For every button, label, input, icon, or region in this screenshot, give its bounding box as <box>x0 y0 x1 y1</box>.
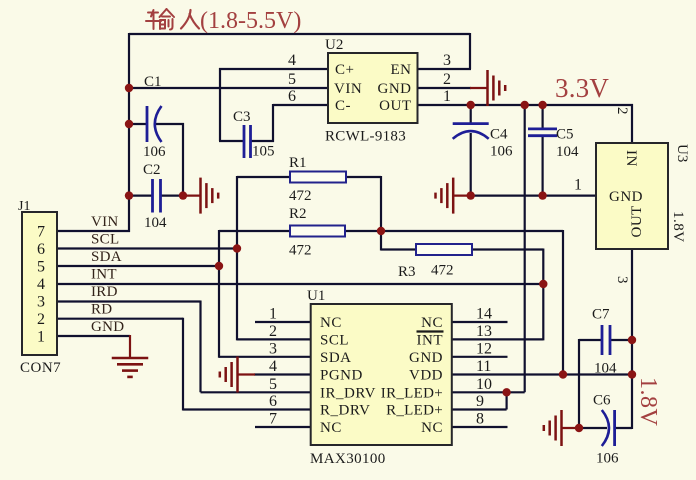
svg-text:105: 105 <box>252 144 275 160</box>
svg-text:2: 2 <box>614 107 630 115</box>
svg-text:SCL: SCL <box>320 332 349 348</box>
svg-text:VIN: VIN <box>334 81 362 97</box>
wire U3 pin 3 vertical (1.8V) <box>631 249 633 429</box>
op-amp U3 body (1.8V LDO) <box>596 143 668 249</box>
svg-text:GND: GND <box>91 319 124 335</box>
capacitor C2 <box>153 179 161 213</box>
svg-text:1.8V: 1.8V <box>670 211 686 243</box>
svg-text:11: 11 <box>476 358 491 375</box>
svg-text:3: 3 <box>37 294 45 311</box>
resistor R1 <box>290 172 346 183</box>
wire C6 right lead <box>615 427 632 429</box>
svg-text:12: 12 <box>476 340 492 357</box>
svg-text:NC: NC <box>320 315 342 331</box>
svg-text:106: 106 <box>490 144 513 160</box>
connector J1 body <box>22 212 57 355</box>
svg-text:C2: C2 <box>143 162 161 178</box>
svg-text:SDA: SDA <box>320 350 352 366</box>
svg-text:R_DRV: R_DRV <box>320 403 370 419</box>
resistor R3 <box>416 244 472 255</box>
junction C1 left <box>125 120 133 128</box>
junction INT <box>539 280 547 288</box>
wire C1 right lead <box>156 123 184 125</box>
wire C2 left lead <box>129 195 153 197</box>
wire EN drop from top rail <box>469 33 471 69</box>
wire pin9-pin10 riser <box>506 391 508 409</box>
wire C4 bottom lead <box>470 133 472 196</box>
wire GND row from J1 pin 1 <box>56 335 130 337</box>
svg-text:GND: GND <box>409 350 443 366</box>
ground U2 GND pin 2 <box>470 70 505 106</box>
svg-text:5: 5 <box>269 376 277 393</box>
wire U2 pin 2 stub <box>418 87 472 89</box>
svg-text:4: 4 <box>269 358 277 375</box>
junction SDA <box>215 262 223 270</box>
wire C7 left vertical <box>578 339 580 429</box>
wire IRD row from J1 pin 3 <box>56 300 201 302</box>
junction C7 right <box>628 336 636 344</box>
resistor R2 <box>290 226 345 237</box>
svg-text:13: 13 <box>476 323 492 340</box>
svg-text:4: 4 <box>288 52 296 69</box>
svg-text:R1: R1 <box>289 155 307 171</box>
svg-text:1: 1 <box>37 329 45 346</box>
junction gnd row C4 <box>467 191 475 199</box>
ground C1/C2 <box>183 178 218 214</box>
op-amp U1 body (MAX30100) <box>311 304 452 445</box>
wire J1 ground stem <box>129 335 131 358</box>
wire U3 pin 2 drop <box>631 104 633 143</box>
svg-text:J1: J1 <box>18 199 30 214</box>
wire input supply vertical <box>128 33 130 232</box>
junction gnd row C5 <box>538 191 546 199</box>
junction C2 left <box>125 191 133 199</box>
wire RD row from J1 pin 2 <box>56 318 183 320</box>
capacitor C1 <box>147 106 162 142</box>
wire U2 pin 4 row <box>219 68 328 70</box>
net name title chinese character 输 <box>146 9 174 30</box>
wire U1 pin 13 row <box>452 338 543 340</box>
svg-text:7: 7 <box>37 224 45 241</box>
wire ground row to U3 pin 1 <box>471 195 596 197</box>
svg-text:VDD: VDD <box>409 368 443 384</box>
svg-text:472: 472 <box>289 188 312 204</box>
wire C- vertical <box>272 104 274 142</box>
svg-text:3: 3 <box>269 340 277 357</box>
svg-text:IN: IN <box>623 150 639 167</box>
wire RD vertical <box>182 318 184 411</box>
ground C6 <box>544 410 579 446</box>
svg-text:OUT: OUT <box>629 205 645 237</box>
wire R3 left lead <box>381 248 416 250</box>
wire U1 pin 10 row <box>452 391 525 393</box>
svg-text:R_LED+: R_LED+ <box>386 403 443 419</box>
net name title chinese character 入 <box>181 10 199 29</box>
wire INT row from J1 pin 4 <box>56 283 543 285</box>
svg-text:(1.8-5.5V): (1.8-5.5V) <box>200 8 301 34</box>
wire IRD vertical <box>199 301 201 393</box>
svg-text:472: 472 <box>289 243 312 259</box>
wire C5 bottom lead <box>541 136 543 196</box>
junction C6 left / ground <box>575 424 583 432</box>
ground U1 PGND <box>220 357 255 393</box>
svg-text:U2: U2 <box>325 37 343 53</box>
junction 1.8V rail / U3 out <box>628 370 636 378</box>
svg-text:4: 4 <box>37 276 45 293</box>
wire SDA vertical <box>218 230 220 358</box>
svg-text:RD: RD <box>91 302 112 318</box>
svg-text:1: 1 <box>269 306 277 323</box>
ground C4/C5 rail <box>436 178 471 214</box>
wire U1 pin 2 row <box>237 338 311 340</box>
svg-text:3: 3 <box>443 52 451 69</box>
capacitor C5 <box>528 129 557 136</box>
wire 3.3V rail (U2 OUT) <box>418 104 634 106</box>
wire U1 pin 3 row <box>219 356 311 358</box>
wire C+ vertical to C3 <box>219 68 221 141</box>
wire U1 pin 5 row <box>201 391 311 393</box>
wire C3 right lead <box>251 140 275 142</box>
wire C6 left lead <box>579 427 607 429</box>
svg-text:CON7: CON7 <box>20 360 61 376</box>
wire C4 top lead <box>470 105 472 124</box>
wire R2 left lead <box>219 230 290 232</box>
svg-text:C5: C5 <box>556 127 574 143</box>
svg-text:104: 104 <box>556 144 579 160</box>
wire U1 pin 4 stub <box>254 373 311 375</box>
svg-text:OUT: OUT <box>379 98 411 114</box>
capacitor C6 <box>602 410 615 446</box>
svg-text:PGND: PGND <box>320 368 363 384</box>
junction C2 right / ground <box>179 191 187 199</box>
junction SCL <box>233 244 241 252</box>
wire VIN row from J1 pin 7 <box>56 230 130 232</box>
wire C1-C2 right vertical <box>182 123 184 197</box>
wire R3 right lead <box>472 248 543 250</box>
svg-text:RCWL-9183: RCWL-9183 <box>325 129 406 145</box>
svg-text:106: 106 <box>596 451 619 467</box>
svg-text:MAX30100: MAX30100 <box>310 451 386 467</box>
svg-text:GND: GND <box>609 189 643 205</box>
junction pullup to 1.8V rail <box>559 370 567 378</box>
svg-text:U1: U1 <box>307 288 325 304</box>
wire U1 pin 7 stub <box>255 426 311 428</box>
svg-text:IR_DRV: IR_DRV <box>320 385 376 401</box>
svg-text:6: 6 <box>37 241 45 258</box>
svg-text:3: 3 <box>614 276 630 284</box>
svg-text:5: 5 <box>37 259 45 276</box>
svg-text:1: 1 <box>443 88 451 105</box>
svg-text:NC: NC <box>421 420 443 436</box>
capacitor C7 <box>602 325 610 355</box>
wire U1 pin 6 row <box>183 408 311 410</box>
svg-text:6: 6 <box>269 393 277 410</box>
svg-text:R3: R3 <box>398 264 416 280</box>
svg-text:7: 7 <box>269 411 277 428</box>
wire VIN to U2 pin 5 <box>129 87 328 89</box>
junction 3.3V C5 <box>538 101 546 109</box>
wire U1 pin 12 stub <box>452 356 508 358</box>
svg-text:C4: C4 <box>490 127 508 143</box>
svg-text:C3: C3 <box>233 109 251 125</box>
wire C3 left lead <box>219 140 244 142</box>
svg-text:VIN: VIN <box>91 214 119 230</box>
svg-text:104: 104 <box>144 215 167 231</box>
wire U1 pin 9 stub <box>452 408 507 410</box>
svg-text:6: 6 <box>288 88 296 105</box>
capacitor C3 <box>244 125 251 158</box>
wire U1 pin 8 stub <box>452 426 508 428</box>
svg-text:C+: C+ <box>335 62 354 78</box>
wire U2 pin 3 stub <box>418 68 472 70</box>
wire U1 pin 14 stub <box>452 321 508 323</box>
wire U1 pin 1 stub <box>255 321 311 323</box>
svg-text:EN: EN <box>391 62 412 78</box>
svg-text:SCL: SCL <box>91 232 119 248</box>
svg-text:10: 10 <box>476 376 492 393</box>
wire pullup node vertical <box>562 230 564 375</box>
svg-text:U3: U3 <box>674 144 690 162</box>
wire C2 right lead <box>161 195 184 197</box>
junction 3.3V branch <box>521 101 529 109</box>
junction R2 right <box>377 227 385 235</box>
svg-text:472: 472 <box>431 263 454 279</box>
wire SCL row from J1 pin 6 <box>56 247 237 249</box>
svg-text:1: 1 <box>574 177 582 194</box>
wire INT vertical <box>542 249 544 341</box>
svg-text:IRD: IRD <box>91 284 118 300</box>
svg-text:NC: NC <box>320 420 342 436</box>
svg-text:14: 14 <box>476 306 492 323</box>
wire input top rail <box>129 33 470 35</box>
wire R1 left lead <box>237 176 290 178</box>
svg-text:8: 8 <box>476 411 484 428</box>
svg-text:NC: NC <box>421 315 443 331</box>
wire R1 right lead <box>346 176 381 178</box>
wire SCL vertical <box>236 176 238 340</box>
wire C1 left lead <box>129 123 147 125</box>
svg-text:2: 2 <box>443 71 451 88</box>
wire SDA row from J1 pin 5 <box>56 265 219 267</box>
svg-text:C1: C1 <box>144 74 162 90</box>
overline on U1 INT <box>417 330 444 332</box>
op-amp U2 body (RCWL-9183) <box>328 53 418 123</box>
wire R1 right vertical <box>380 176 382 251</box>
wire 1.8V rail (U1 VDD row) <box>452 373 632 375</box>
wire U2 pin 6 stub <box>273 104 328 106</box>
svg-text:2: 2 <box>37 311 45 328</box>
svg-text:3.3V: 3.3V <box>555 73 609 103</box>
ground J1 GND <box>112 358 149 377</box>
svg-text:2: 2 <box>269 323 277 340</box>
svg-text:C6: C6 <box>593 393 611 409</box>
junction VIN/U2 pin5 <box>125 84 133 92</box>
svg-text:SDA: SDA <box>91 249 122 265</box>
wire pullup node row <box>345 230 563 232</box>
svg-text:INT: INT <box>417 332 444 348</box>
wire C5 top lead <box>541 105 543 129</box>
svg-text:1.8V: 1.8V <box>635 377 661 427</box>
svg-text:104: 104 <box>594 361 617 377</box>
wire 3.3V branch vertical to LED pins <box>524 105 526 392</box>
capacitor C4 <box>453 124 489 139</box>
svg-text:106: 106 <box>143 144 166 160</box>
svg-text:INT: INT <box>91 267 117 283</box>
svg-text:5: 5 <box>288 71 296 88</box>
wire C7 left lead <box>579 339 603 341</box>
svg-text:9: 9 <box>476 393 484 410</box>
junction LED+ pins <box>502 388 510 396</box>
svg-text:C-: C- <box>335 98 351 114</box>
junction 3.3V C4 <box>467 101 475 109</box>
svg-text:GND: GND <box>378 81 412 97</box>
svg-text:R2: R2 <box>289 206 307 222</box>
svg-text:IR_LED+: IR_LED+ <box>381 385 443 401</box>
svg-text:C7: C7 <box>592 307 610 323</box>
wire C7 right lead <box>610 339 632 341</box>
